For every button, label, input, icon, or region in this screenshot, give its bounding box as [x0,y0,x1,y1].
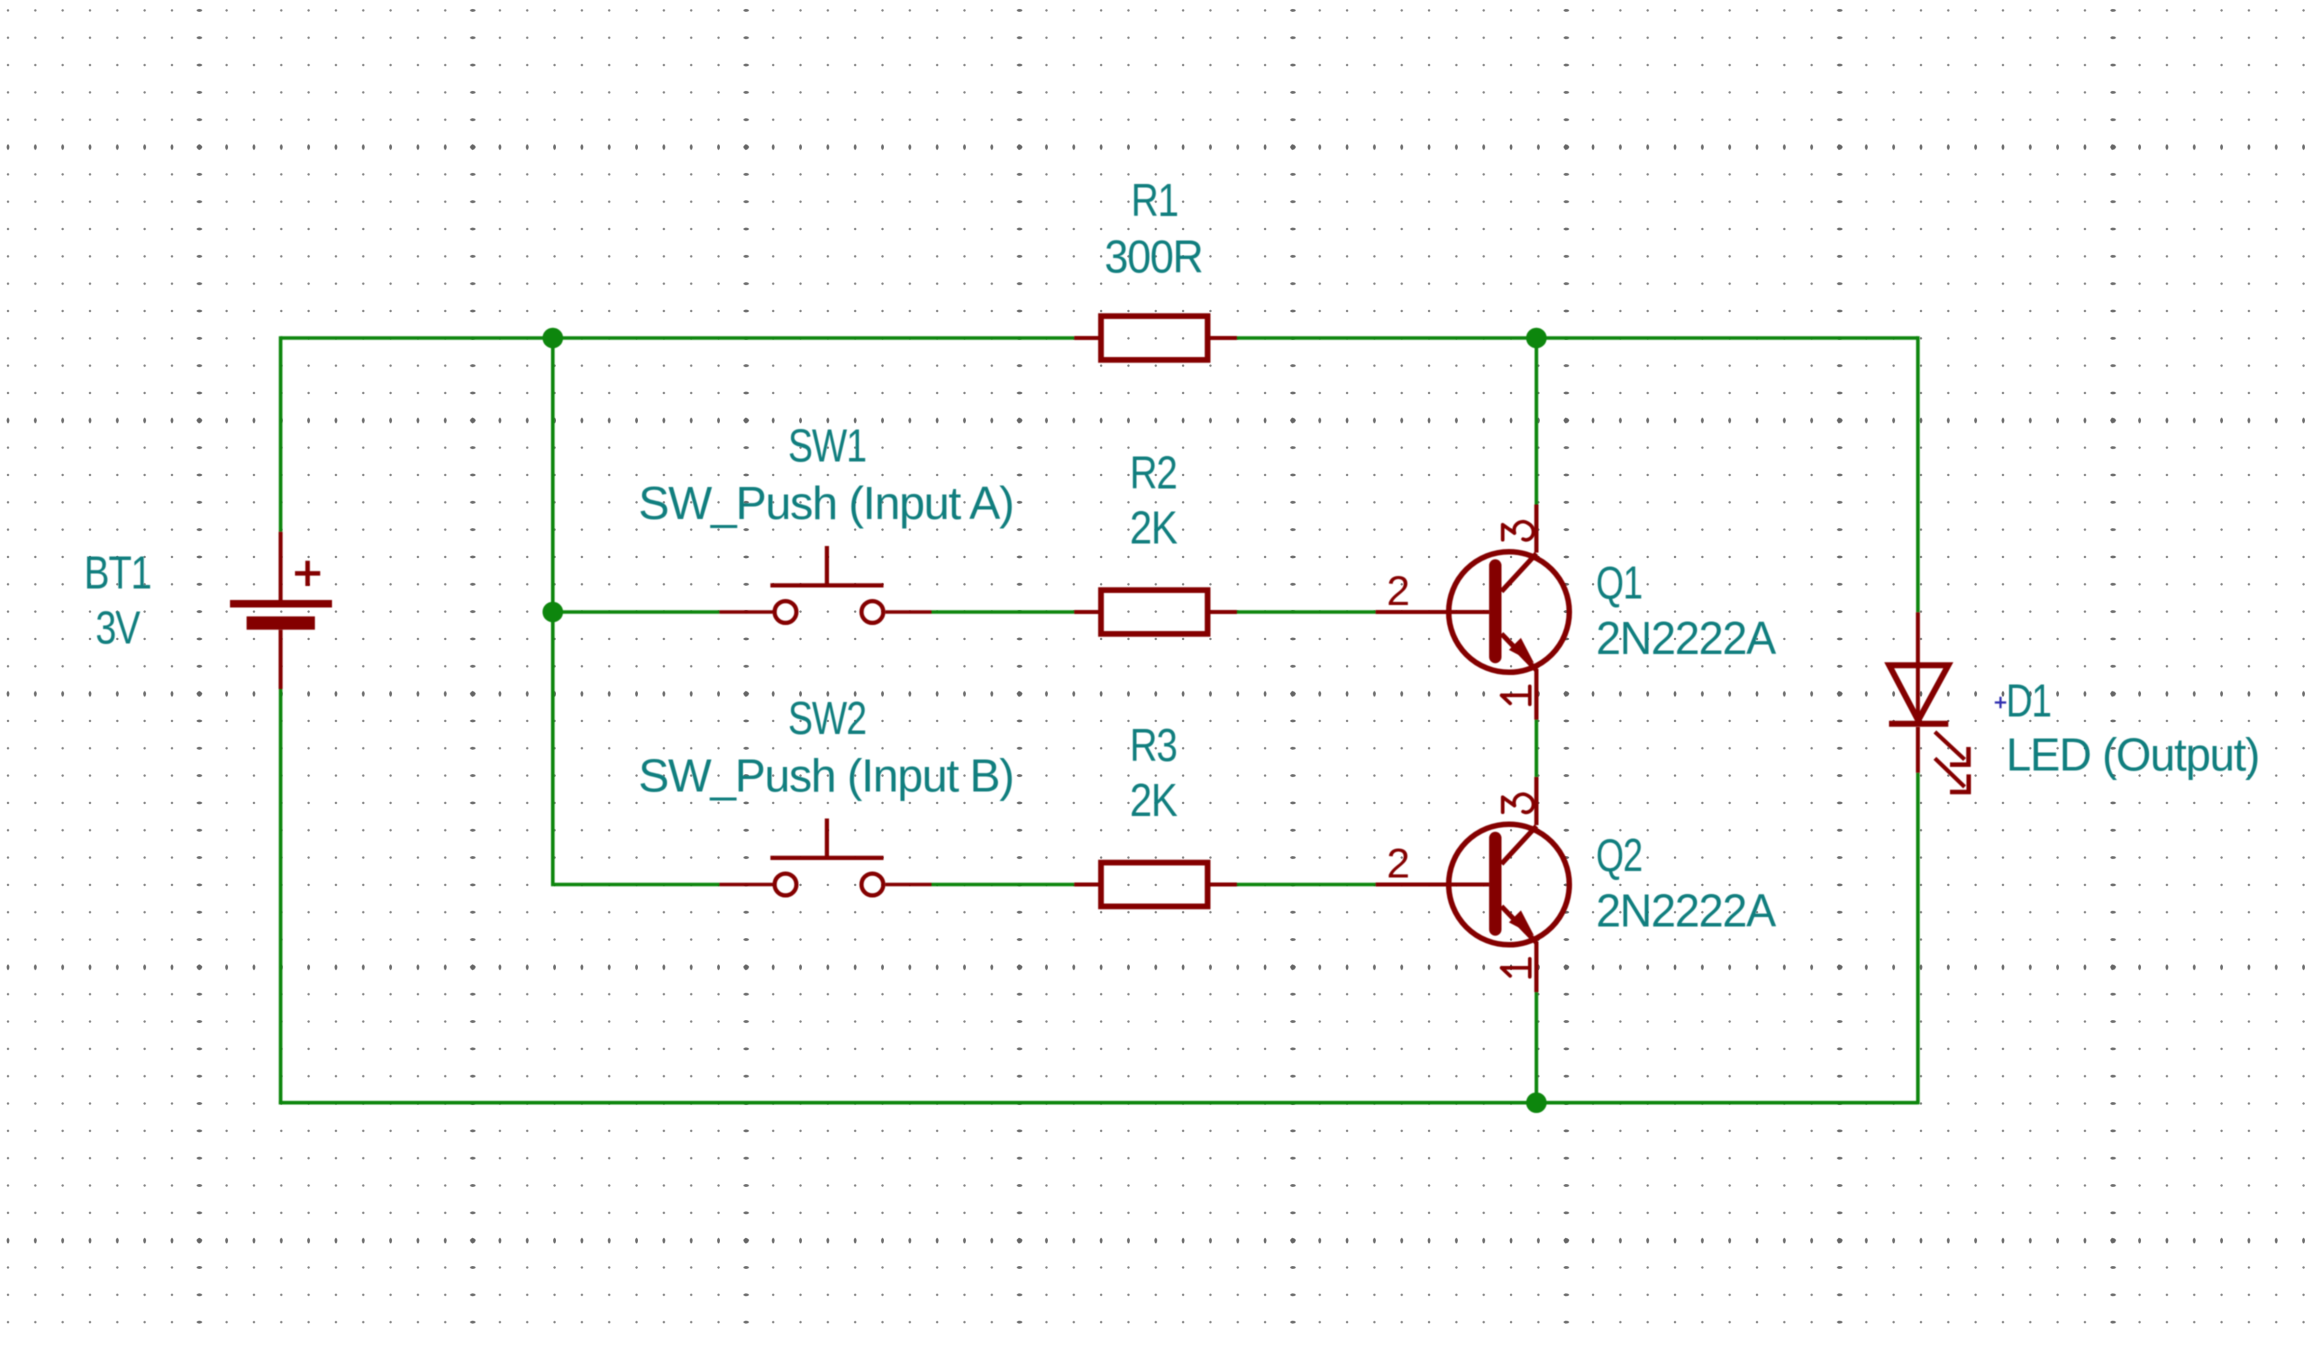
svg-text:2K: 2K [1130,502,1178,554]
svg-text:300R: 300R [1105,230,1203,282]
svg-text:SW2: SW2 [788,692,866,744]
svg-text:SW_Push (Input A): SW_Push (Input A) [638,477,1013,529]
svg-text:Q1: Q1 [1596,557,1642,609]
svg-text:3V: 3V [96,601,141,653]
svg-text:D1: D1 [2006,675,2051,727]
svg-text:2N2222A: 2N2222A [1596,612,1776,664]
svg-text:SW1: SW1 [788,420,866,472]
svg-text:2: 2 [1387,567,1410,614]
svg-text:2K: 2K [1130,774,1178,826]
svg-text:Q2: Q2 [1596,829,1642,881]
svg-text:2: 2 [1387,840,1410,887]
svg-text:BT1: BT1 [84,547,151,599]
svg-text:R1: R1 [1131,174,1178,226]
svg-text:R3: R3 [1130,719,1177,771]
svg-text:LED (Output): LED (Output) [2006,729,2259,781]
svg-text:SW_Push (Input B): SW_Push (Input B) [638,750,1013,802]
svg-text:2N2222A: 2N2222A [1596,885,1776,937]
svg-text:R2: R2 [1130,447,1177,499]
